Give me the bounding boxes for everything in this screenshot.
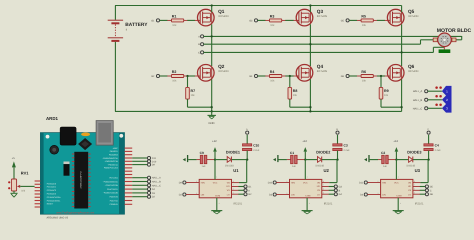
junction: R9 top on gate wire (380, 75, 382, 77)
svg-text:R6: R6 (361, 70, 366, 74)
terminal C (U3) (413, 189, 432, 193)
svg-text:VCC: VCC (394, 182, 399, 185)
wire+terminal D3 (132, 191, 155, 195)
capacitor C2 1uF (378, 151, 396, 168)
ground flag (U1 VCC cap) (183, 155, 197, 162)
terminal A (bootstrap top, U1) (246, 128, 249, 134)
svg-text:IRF540N: IRF540N (317, 70, 328, 73)
ground (RV1) (10, 193, 17, 197)
svg-text:+12: +12 (302, 140, 307, 143)
svg-text:IRF540N: IRF540N (408, 15, 419, 18)
op-amp U3 IR2101 (gate driver IC) (381, 168, 424, 205)
resistor R4 10k (258, 70, 297, 82)
motor MOTOR BLDC (433, 28, 471, 53)
ARD1 resonator (yellow oval) (81, 133, 90, 137)
terminal B (U2) (322, 189, 341, 193)
connector pin pads 3 (435, 103, 442, 106)
terminal G2 (151, 74, 159, 78)
terminal G3 (249, 19, 257, 23)
wire: phase B vertical Q3 source to Q4 drain (309, 24, 311, 66)
wire: phase C bus to motor bottom pad (204, 47, 445, 52)
terminal G5 (341, 19, 349, 23)
svg-text:Q5: Q5 (408, 9, 415, 14)
svg-text:PD2/INT0: PD2/INT0 (109, 196, 117, 199)
svg-text:DIODE2: DIODE2 (316, 150, 330, 154)
wire: phase A bus to motor right pad (204, 36, 462, 40)
wire: source of Q4 to ground rail (309, 79, 311, 111)
wire: phase B bus to motor left pad (204, 40, 434, 44)
svg-text:ARDUINO UNO V3: ARDUINO UNO V3 (47, 217, 69, 220)
svg-text:Q6: Q6 (408, 64, 415, 69)
terminal G3 (U2) (322, 185, 343, 189)
resistor R6 10k (349, 70, 388, 82)
transistor Q4 IRF540N (296, 64, 327, 81)
svg-text:PB0/ICP1/CLKO: PB0/ICP1/CLKO (104, 167, 119, 170)
terminal G6 (341, 74, 349, 78)
svg-text:R5: R5 (361, 15, 366, 19)
potentiometer RV1 10k (8, 171, 29, 193)
connector J1 (hall sensor header) (442, 86, 452, 113)
terminal C (phase bus left end) (198, 51, 204, 55)
svg-text:HO: HO (408, 185, 412, 188)
svg-text:HIN: HIN (382, 182, 386, 185)
svg-text:2: 2 (377, 180, 378, 183)
svg-text:PD4/T0/XCK: PD4/T0/XCK (107, 188, 119, 191)
svg-text:PC0/ADC0: PC0/ADC0 (47, 182, 56, 185)
wire: HALL_A to connector pin 1 (428, 90, 442, 92)
svg-text:+12: +12 (393, 140, 398, 143)
svg-text:DIODE1: DIODE1 (226, 150, 240, 154)
terminal HALL_B (right) (413, 98, 428, 102)
svg-text:ARD1: ARD1 (46, 116, 59, 121)
terminal HALL_C (right) (413, 107, 428, 111)
ARD1 digital header pins (upper) (102, 147, 132, 175)
svg-text:1uF: 1uF (202, 165, 207, 168)
terminal B (bootstrap top, U2) (336, 128, 339, 134)
terminal G1 (151, 19, 159, 23)
svg-text:2.2uF: 2.2uF (253, 149, 260, 152)
svg-text:HALL_C: HALL_C (413, 107, 423, 110)
junction: Q2 source on ground rail (211, 110, 213, 112)
svg-text:PC2/ADC2: PC2/ADC2 (47, 189, 56, 192)
op-amp U2 IR2101 (gate driver IC) (290, 168, 333, 205)
wire: VCC pin (U1) (214, 160, 216, 180)
svg-text:RV1: RV1 (21, 171, 29, 176)
svg-text:1: 1 (307, 176, 308, 179)
wire+terminal HALL_A (132, 176, 161, 180)
svg-text:C3: C3 (344, 143, 348, 147)
wire: RV1 wiper to ARD1 A0 (20, 185, 34, 187)
wire+terminal D4 (132, 188, 155, 192)
svg-text:IR2101: IR2101 (233, 202, 242, 205)
junction: Q4 source on ground rail (309, 110, 311, 112)
ARD1 ATmega328 chip (72, 152, 91, 209)
svg-text:+12: +12 (212, 140, 217, 143)
junction: phase B bus (309, 43, 311, 45)
svg-text:GND: GND (208, 122, 214, 125)
svg-text:IRF540N: IRF540N (218, 70, 229, 73)
terminal HALL_A (right) (413, 90, 428, 94)
svg-text:2: 2 (286, 180, 287, 183)
svg-text:1: 1 (398, 176, 399, 179)
svg-text:C: C (430, 189, 432, 192)
svg-text:PC4/ADC4/SDA: PC4/ADC4/SDA (47, 196, 61, 199)
power flag +12 (U1) (212, 140, 217, 160)
transistor Q1 IRF540N (198, 9, 229, 26)
ARD1 diode D1 (64, 162, 70, 176)
wire: HALL_C to connector pin 3 (428, 107, 442, 109)
svg-text:LIN: LIN (291, 194, 295, 197)
junction: R7 connector on source column (211, 106, 213, 108)
svg-text:8: 8 (233, 180, 234, 183)
resistor R1 10k (160, 15, 198, 27)
svg-text:BATTERY: BATTERY (125, 22, 148, 28)
svg-text:8: 8 (323, 180, 324, 183)
svg-text:C2: C2 (381, 151, 385, 155)
svg-text:HALL_B: HALL_B (152, 181, 161, 184)
wire+terminal HALL_B (132, 180, 161, 184)
terminal D2 (LIN input U1) (179, 193, 199, 197)
terminal D11 (HIN input U3) (359, 181, 381, 185)
svg-text:PD1/TXD: PD1/TXD (110, 199, 119, 202)
svg-text:R3: R3 (270, 15, 275, 19)
ground (U3 COM) (393, 198, 404, 214)
wire: VCC pin (U3) (395, 160, 397, 180)
wire: VB pin to bootstrap node (U3) (413, 160, 428, 183)
svg-text:Q4: Q4 (317, 64, 324, 69)
svg-text:LIN: LIN (382, 194, 386, 197)
svg-text:4: 4 (309, 202, 310, 205)
svg-text:Q3: Q3 (317, 9, 324, 14)
junction: VCC node (U1) (214, 158, 216, 160)
diode DIODE2 1N4148 (305, 150, 337, 167)
battery BAT1 (108, 6, 149, 112)
wire+terminal D11 (132, 156, 156, 160)
svg-text:PC1/ADC1: PC1/ADC1 (47, 186, 56, 189)
op-amp U1 IR2101 (gate driver IC) (199, 168, 242, 205)
wire+terminal D9 (132, 163, 155, 167)
pin numbers (U2) (286, 176, 324, 205)
svg-text:3: 3 (286, 192, 287, 195)
svg-text:PD7/AIN1: PD7/AIN1 (109, 177, 117, 180)
ground (U1 COM) (211, 198, 222, 214)
svg-text:3: 3 (196, 192, 197, 195)
junction: phase C bus (400, 51, 402, 53)
svg-text:2: 2 (196, 180, 197, 183)
svg-text:C9: C9 (200, 151, 204, 155)
svg-text:2.2uF: 2.2uF (344, 149, 351, 152)
svg-text:C1: C1 (290, 151, 294, 155)
svg-text:2.2uF: 2.2uF (435, 149, 442, 152)
svg-text:PD0/RXD: PD0/RXD (110, 203, 119, 206)
terminal G6 (U3) (413, 193, 434, 197)
svg-text:Q2: Q2 (218, 64, 225, 69)
svg-text:IR2101: IR2101 (415, 202, 424, 205)
capacitor C1 1uF (287, 151, 305, 168)
transistor Q3 IRF540N (296, 9, 327, 26)
svg-text:LO: LO (408, 193, 411, 196)
svg-text:VCC: VCC (303, 182, 308, 185)
svg-text:~PB3/MOSI/OC2A: ~PB3/MOSI/OC2A (102, 157, 118, 160)
transistor Q2 IRF540N (198, 64, 229, 81)
svg-text:HO: HO (317, 185, 321, 188)
terminal D10 (HIN input U2) (268, 181, 290, 185)
wire: drain of Q5 to +V rail (401, 6, 403, 13)
svg-text:1N4148: 1N4148 (225, 165, 234, 168)
svg-text:R4: R4 (270, 70, 275, 74)
wire: HALL_B to connector pin 2 (428, 99, 442, 101)
junction: Q3 drain on +V rail (309, 4, 311, 6)
ground (main) (208, 111, 216, 125)
pin numbers (U1) (196, 176, 234, 205)
svg-text:PC3/ADC3: PC3/ADC3 (47, 193, 56, 196)
junction: R9 connector on source column (400, 106, 402, 108)
ARD1 reset button (50, 145, 59, 154)
transistor Q6 IRF540N (387, 64, 418, 81)
svg-text:~PD5/T1/OC0B: ~PD5/T1/OC0B (105, 184, 119, 187)
transistor Q5 IRF540N (387, 9, 418, 26)
svg-text:HO: HO (226, 185, 230, 188)
svg-text:HALL_C: HALL_C (152, 184, 161, 187)
svg-text:R7: R7 (191, 89, 196, 93)
terminal B (phase bus left end) (198, 43, 203, 47)
connector pin pads 1 (435, 86, 442, 89)
junction: Q1 drain on +V rail (211, 4, 213, 6)
svg-text:U1: U1 (233, 168, 239, 173)
terminal A (U1) (232, 189, 251, 193)
wire: drain of Q1 to +V rail (211, 6, 213, 13)
svg-text:PB5/SCK: PB5/SCK (110, 150, 119, 153)
svg-text:R2: R2 (172, 70, 177, 74)
svg-text:~PD6/AIN0/OC0A: ~PD6/AIN0/OC0A (103, 180, 119, 183)
junction: R8 top on gate wire (289, 75, 291, 77)
svg-text:RESET: RESET (47, 203, 54, 206)
junction: R7 top on gate wire (186, 75, 188, 77)
terminal A (phase bus left end) (198, 35, 203, 39)
ground flag (U3 VCC cap) (364, 155, 378, 162)
terminal G1 (U1) (232, 185, 253, 189)
svg-text:D11: D11 (359, 182, 364, 185)
wire: ground bottom rail (115, 110, 402, 112)
ARD1 rotated chip (diamond) (78, 138, 92, 150)
svg-text:ATMEGA328P-PU: ATMEGA328P-PU (80, 171, 83, 189)
svg-text:4: 4 (219, 202, 220, 205)
wire: +V top rail (115, 5, 402, 7)
svg-text:D10: D10 (268, 182, 273, 185)
svg-text:www.TheEngineeringProjects.com: www.TheEngineeringProjects.com (56, 211, 94, 214)
wire: RV1 bottom to ground (13, 191, 15, 193)
junction: bootstrap node (U3) (427, 158, 429, 160)
ARD1 analog header pins (left) (35, 181, 62, 207)
ARD1 digital header pins (lower) (103, 177, 133, 207)
wire: VB pin to bootstrap node (U2) (322, 160, 337, 183)
wire: source of Q2 to ground rail (211, 79, 213, 111)
junction: VCC node (U2) (304, 158, 306, 160)
junction: phase A bus (211, 35, 213, 37)
wire+terminal D10 (132, 160, 157, 164)
terminal C (bootstrap top, U3) (427, 128, 430, 134)
svg-text:R9: R9 (384, 89, 389, 93)
svg-text:COM: COM (305, 194, 310, 197)
svg-text:8: 8 (414, 180, 415, 183)
wire+terminal D2 (132, 195, 155, 199)
wire: drain of Q3 to +V rail (309, 6, 311, 13)
wire: phase C vertical Q5 source to Q6 drain (401, 24, 403, 66)
svg-text:COM: COM (396, 194, 401, 197)
resistor R2 10k (160, 70, 198, 82)
junction: bootstrap node (U1) (246, 158, 248, 160)
terminal D3 (LIN input U2) (269, 193, 289, 197)
svg-text:1N4148: 1N4148 (315, 165, 324, 168)
terminal G5 (U3) (413, 185, 434, 189)
terminal G2 (U1) (232, 193, 253, 197)
svg-text:R8: R8 (293, 89, 298, 93)
capacitor C9 1uF (197, 151, 215, 168)
junction: VCC node (U3) (395, 158, 397, 160)
wire+terminal HALL_C (132, 184, 161, 188)
svg-text:C4: C4 (435, 143, 439, 147)
resistor R8 10k (288, 76, 310, 107)
svg-text:Q1: Q1 (218, 9, 225, 14)
svg-text:HIN: HIN (201, 182, 205, 185)
resistor R9 10k (379, 76, 401, 107)
svg-text:DIODE3: DIODE3 (407, 150, 421, 154)
svg-text:PB4/MISO: PB4/MISO (109, 154, 118, 157)
capacitor C3 2.2uF (333, 135, 350, 160)
svg-text:C10: C10 (253, 143, 259, 147)
svg-text:LO: LO (227, 193, 230, 196)
wire: phase A vertical Q1 source to Q2 drain (211, 24, 213, 66)
pin numbers (U3) (377, 176, 415, 205)
power flag +12 (U2) (302, 140, 307, 160)
svg-text:C: C (198, 51, 200, 54)
resistor R7 10k (186, 76, 212, 107)
power +5 flag (12, 157, 16, 179)
svg-text:1N4148: 1N4148 (406, 165, 415, 168)
svg-text:HALL_A: HALL_A (152, 177, 161, 180)
svg-text:~PD3/INT1/OC2B: ~PD3/INT1/OC2B (103, 192, 119, 195)
capacitor C4 2.2uF (424, 135, 441, 160)
wire: source of Q6 to ground rail (401, 79, 403, 111)
svg-text:HALL_B: HALL_B (413, 99, 423, 102)
resistor R3 10k (258, 15, 297, 27)
svg-text:PC5/ADC5/SCL: PC5/ADC5/SCL (47, 199, 60, 202)
svg-text:U2: U2 (324, 168, 330, 173)
svg-text:VCC: VCC (213, 182, 218, 185)
svg-text:LIN: LIN (201, 194, 205, 197)
svg-text:IRF540N: IRF540N (408, 70, 419, 73)
wire: VB pin to bootstrap node (U1) (232, 160, 247, 183)
terminal D9 (HIN input U1) (179, 181, 199, 185)
diode DIODE1 1N4148 (215, 150, 247, 167)
terminal G4 (U2) (322, 193, 343, 197)
svg-text:IRF540N: IRF540N (218, 15, 229, 18)
svg-text:1uF: 1uF (383, 165, 388, 168)
svg-text:U3: U3 (415, 168, 421, 173)
Arduino module ARD1 (40, 116, 124, 214)
junction: bootstrap node (U2) (336, 158, 338, 160)
svg-text:IRF540N: IRF540N (317, 15, 328, 18)
svg-text:AREF: AREF (113, 147, 119, 150)
terminal G4 (249, 74, 257, 78)
svg-text:HIN: HIN (291, 182, 295, 185)
svg-text:COM: COM (215, 194, 220, 197)
svg-text:HALL_A: HALL_A (413, 90, 423, 93)
connector pin pads 2 (435, 95, 442, 98)
svg-text:R1: R1 (172, 15, 177, 19)
terminal D4 (LIN input U3) (360, 193, 380, 197)
svg-text:3: 3 (377, 192, 378, 195)
ARD1 USB connector (96, 121, 113, 146)
wire: VCC pin (U2) (304, 160, 306, 180)
power flag +12 (U3) (393, 140, 398, 160)
svg-text:~PB1/OC1A: ~PB1/OC1A (107, 163, 118, 166)
svg-text:LO: LO (317, 193, 320, 196)
svg-text:1uF: 1uF (292, 165, 297, 168)
resistor R5 10k (349, 15, 388, 27)
ground flag (U2 VCC cap) (273, 155, 287, 162)
svg-text:IR2101: IR2101 (324, 202, 333, 205)
svg-text:1: 1 (216, 176, 217, 179)
svg-text:4: 4 (400, 202, 401, 205)
svg-text:~PB2/SS/OC1B: ~PB2/SS/OC1B (104, 160, 118, 163)
diode DIODE3 1N4148 (396, 150, 428, 167)
capacitor C10 2.2uF (243, 135, 260, 160)
ARD1 power jack (60, 127, 76, 145)
junction: R8 connector on source column (309, 106, 311, 108)
ground (U2 COM) (302, 198, 313, 214)
